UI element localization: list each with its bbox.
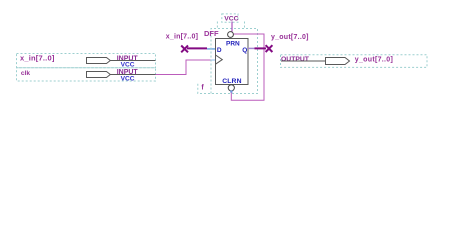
svg-text:DFF: DFF — [204, 29, 219, 38]
svg-text:y_out[7..0]: y_out[7..0] — [355, 57, 393, 64]
svg-text:PRN: PRN — [226, 41, 240, 48]
svg-text:Q: Q — [242, 47, 247, 54]
svg-text:CLRN: CLRN — [222, 78, 241, 85]
svg-text:VCC: VCC — [121, 75, 135, 82]
svg-text:clk: clk — [21, 70, 30, 77]
svg-text:f: f — [201, 84, 204, 91]
svg-text:D: D — [217, 47, 222, 54]
svg-text:OUTPUT: OUTPUT — [281, 56, 310, 63]
svg-text:y_out[7..0]: y_out[7..0] — [271, 34, 309, 41]
svg-text:VCC: VCC — [121, 62, 135, 69]
svg-text:VCC: VCC — [224, 16, 238, 23]
svg-text:x_in[7..0]: x_in[7..0] — [20, 54, 55, 63]
svg-text:x_in[7..0]: x_in[7..0] — [166, 34, 198, 41]
